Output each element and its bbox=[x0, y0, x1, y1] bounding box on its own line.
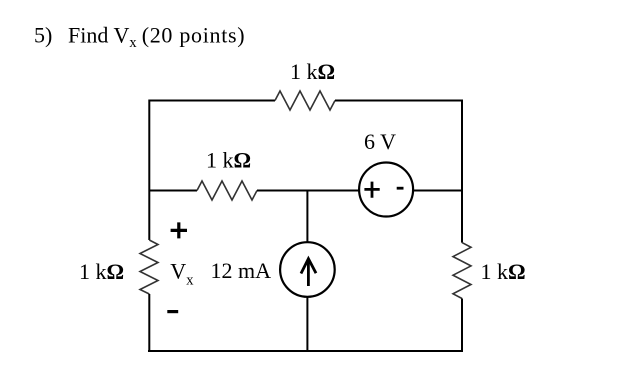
resistor R1 (top 1 kOhm) zigzag bbox=[275, 91, 335, 110]
wire left vertical upper bbox=[148, 100, 150, 241]
svg-text:1 kΩ: 1 kΩ bbox=[79, 259, 124, 284]
wire right vertical upper bbox=[461, 100, 463, 243]
wire middle-left segment bbox=[149, 190, 198, 192]
wire top-left segment bbox=[149, 100, 275, 102]
I1 arrow head bbox=[301, 259, 316, 274]
V1 plus terminal mark bbox=[364, 182, 379, 198]
svg-text:1 kΩ: 1 kΩ bbox=[481, 259, 526, 284]
svg-text:1 kΩ: 1 kΩ bbox=[206, 148, 251, 173]
minus sign of Vx polarity bbox=[167, 310, 178, 313]
V1 minus terminal mark bbox=[397, 187, 404, 190]
wire left vertical lower bbox=[148, 294, 150, 352]
I1 arrow shaft bbox=[307, 261, 310, 286]
svg-text:12 mA: 12 mA bbox=[211, 258, 272, 283]
resistor R4 (right 1 kOhm) zigzag bbox=[453, 243, 471, 299]
resistor R2 (left 1 kOhm) zigzag bbox=[140, 240, 158, 294]
wire middle branch lower bbox=[306, 297, 308, 351]
resistor R3 (middle 1 kOhm) zigzag bbox=[197, 181, 257, 200]
voltage source V1 (6 V) circle bbox=[359, 163, 413, 217]
svg-text:Vx: Vx bbox=[170, 259, 194, 289]
wire top-right segment bbox=[335, 100, 462, 102]
wire middle branch upper bbox=[306, 191, 308, 243]
plus sign of Vx polarity bbox=[171, 222, 187, 238]
svg-text:5)Find Vx (20 points): 5)Find Vx (20 points) bbox=[34, 23, 245, 52]
svg-text:1 kΩ: 1 kΩ bbox=[290, 59, 335, 84]
svg-text:6 V: 6 V bbox=[364, 129, 396, 154]
wire middle-center segment bbox=[257, 190, 359, 192]
wire bottom bbox=[148, 350, 463, 352]
wire middle-right segment bbox=[413, 190, 462, 192]
wire right vertical lower bbox=[461, 299, 463, 353]
current source I1 (12 mA) circle bbox=[280, 242, 335, 297]
